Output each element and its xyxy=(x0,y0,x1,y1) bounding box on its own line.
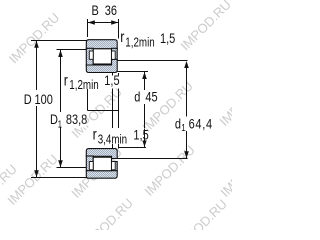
svg-text:45: 45 xyxy=(145,89,157,105)
svg-text:B: B xyxy=(92,3,99,19)
svg-text:IMPOD.RU: IMPOD.RU xyxy=(4,151,61,208)
svg-text:IMPOD.RU: IMPOD.RU xyxy=(6,10,63,67)
svg-text:1,5: 1,5 xyxy=(133,127,148,143)
svg-text:d: d xyxy=(175,116,181,132)
svg-text:36: 36 xyxy=(105,3,117,19)
svg-text:IMPOD.RU: IMPOD.RU xyxy=(216,72,232,129)
svg-text:1,5: 1,5 xyxy=(160,31,175,47)
svg-text:IMPOD.RU: IMPOD.RU xyxy=(79,195,136,230)
svg-text:3,4min: 3,4min xyxy=(98,133,127,146)
svg-text:1,2min: 1,2min xyxy=(69,79,98,92)
svg-text:1: 1 xyxy=(58,118,62,129)
svg-text:64,4: 64,4 xyxy=(189,116,213,132)
svg-text:IMPOD.RU: IMPOD.RU xyxy=(217,143,232,200)
svg-text:IMPOD.RU: IMPOD.RU xyxy=(141,142,198,199)
svg-text:IMPOD.RU: IMPOD.RU xyxy=(177,0,232,53)
svg-text:r: r xyxy=(120,29,124,47)
svg-text:1,5: 1,5 xyxy=(104,73,119,89)
svg-text:1,2min: 1,2min xyxy=(125,36,154,49)
svg-text:D: D xyxy=(24,92,32,108)
svg-text:r: r xyxy=(64,72,68,90)
svg-text:r: r xyxy=(93,126,97,144)
svg-text:IMPOD.RU: IMPOD.RU xyxy=(173,196,230,230)
svg-text:83,8: 83,8 xyxy=(66,112,87,128)
svg-text:d: d xyxy=(134,89,140,105)
svg-text:1: 1 xyxy=(181,122,185,133)
svg-text:100: 100 xyxy=(35,92,53,108)
